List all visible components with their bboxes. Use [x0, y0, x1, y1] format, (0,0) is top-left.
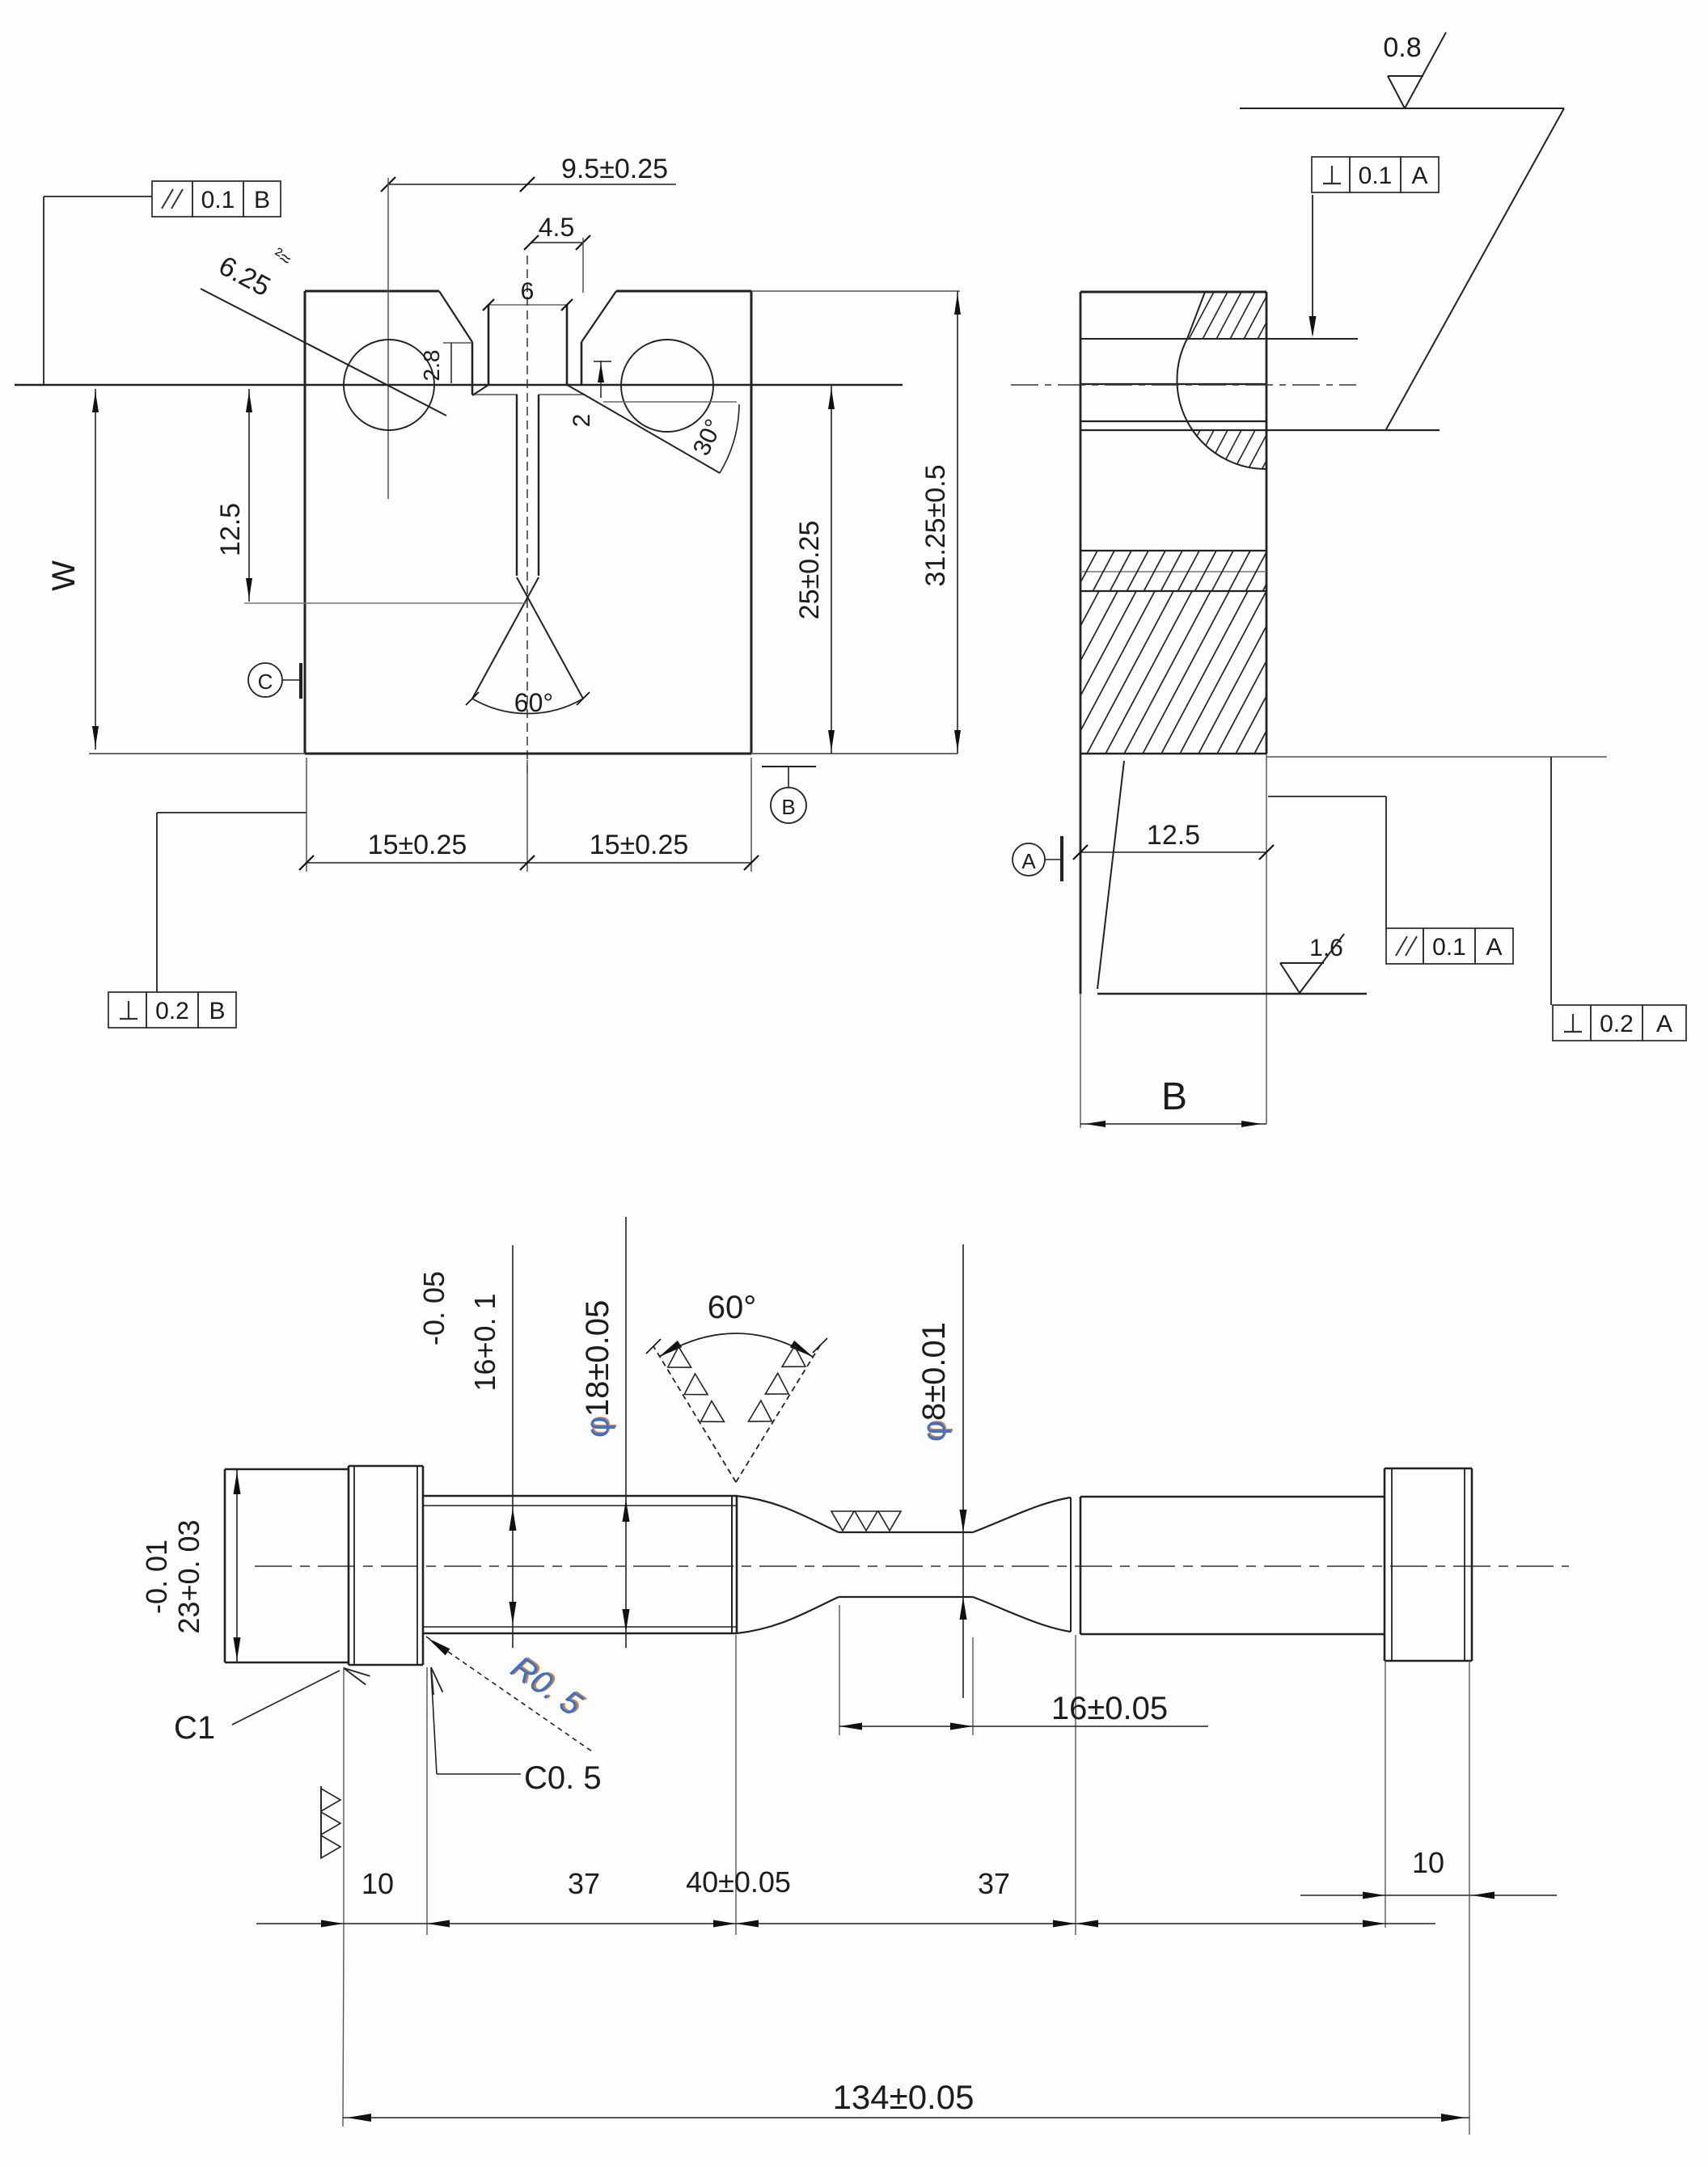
svg-text:0.1: 0.1 — [1432, 934, 1466, 961]
svg-text:C: C — [258, 670, 273, 694]
svg-text:9.5±0.25: 9.5±0.25 — [561, 154, 668, 184]
svg-text:4.5: 4.5 — [539, 213, 574, 242]
svg-text:A: A — [1411, 163, 1427, 189]
svg-text:23+0. 03: 23+0. 03 — [172, 1519, 205, 1633]
svg-text:31.25±0.5: 31.25±0.5 — [920, 464, 951, 586]
svg-text:134±0.05: 134±0.05 — [833, 2078, 974, 2116]
svg-text:φ8±0.01: φ8±0.01 — [916, 1322, 952, 1442]
svg-text:A: A — [1656, 1011, 1672, 1037]
svg-text:6: 6 — [521, 278, 535, 305]
svg-text:-0. 01: -0. 01 — [140, 1540, 173, 1614]
svg-text:12.5: 12.5 — [215, 503, 246, 556]
svg-text:16+0. 1: 16+0. 1 — [468, 1293, 501, 1391]
svg-text:10: 10 — [361, 1867, 394, 1900]
svg-text:0.1: 0.1 — [1359, 163, 1393, 189]
svg-text:15±0.25: 15±0.25 — [590, 830, 689, 860]
svg-text:A: A — [1486, 934, 1502, 961]
svg-text:37: 37 — [568, 1867, 600, 1900]
svg-text:B: B — [781, 795, 795, 819]
svg-text:12.5: 12.5 — [1147, 820, 1200, 851]
svg-text:37: 37 — [978, 1867, 1010, 1900]
svg-text:2.8: 2.8 — [419, 350, 444, 382]
svg-text:0.2: 0.2 — [155, 998, 189, 1024]
svg-text:-0. 05: -0. 05 — [417, 1271, 450, 1345]
svg-text:C1: C1 — [174, 1710, 215, 1746]
svg-text:W: W — [46, 560, 82, 591]
svg-text:B: B — [1161, 1075, 1187, 1118]
svg-text:60°: 60° — [514, 688, 553, 717]
svg-text:0.1: 0.1 — [201, 187, 235, 213]
svg-text:25±0.25: 25±0.25 — [794, 521, 825, 620]
svg-text:1.6: 1.6 — [1309, 935, 1343, 961]
svg-text:A: A — [1021, 849, 1036, 873]
svg-text:0.8: 0.8 — [1383, 32, 1421, 63]
svg-text:B: B — [209, 998, 225, 1024]
svg-text:B: B — [254, 187, 270, 213]
svg-text:10: 10 — [1412, 1846, 1444, 1879]
svg-text:16±0.05: 16±0.05 — [1051, 1691, 1168, 1726]
svg-text:2: 2 — [569, 414, 595, 428]
svg-text:60°: 60° — [708, 1290, 757, 1325]
svg-text:C0. 5: C0. 5 — [524, 1760, 602, 1796]
svg-text:40±0.05: 40±0.05 — [686, 1865, 791, 1899]
svg-text:φ18±0.05: φ18±0.05 — [580, 1300, 615, 1438]
svg-text:0.2: 0.2 — [1600, 1011, 1634, 1037]
svg-text:15±0.25: 15±0.25 — [368, 830, 467, 860]
